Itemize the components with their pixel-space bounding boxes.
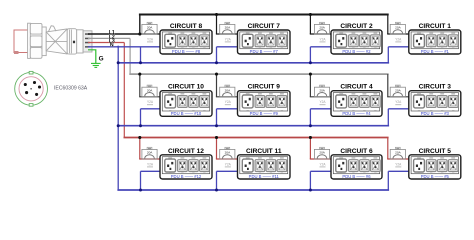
svg-text:PDU B —— #3: PDU B —— #3: [421, 111, 450, 116]
circuit box CIRCUIT 4: [331, 91, 382, 117]
junction: [309, 136, 312, 139]
circuit box CIRCUIT 8: [160, 30, 212, 54]
wire phase feed circuit 11: [216, 138, 218, 160]
svg-text:20A: 20A: [319, 88, 325, 92]
svg-text:CIRCUIT 7: CIRCUIT 7: [248, 23, 281, 30]
wire phase feed circuit 5: [387, 138, 389, 160]
wire neutral circuit 6: [310, 170, 331, 172]
wire phase feed circuit 4: [309, 74, 311, 97]
bus L3 row3: [124, 137, 389, 139]
svg-text:PDU B —— #9: PDU B —— #9: [250, 111, 279, 116]
svg-text:PDU B —— #12: PDU B —— #12: [171, 174, 202, 179]
wire phase feed circuit 7: [216, 15, 218, 35]
svg-text:Y2A: Y2A: [395, 37, 402, 41]
cable entry (red): [14, 30, 30, 54]
breaker CB11: [220, 147, 235, 167]
bus L2 row2: [129, 73, 388, 75]
svg-text:CIRCUIT 8: CIRCUIT 8: [170, 23, 203, 30]
svg-text:20A: 20A: [225, 26, 231, 30]
plug terminals: [85, 33, 90, 47]
svg-text:20A: 20A: [147, 88, 153, 92]
svg-text:CIRCUIT 4: CIRCUIT 4: [340, 84, 373, 91]
svg-text:CIRCUIT 1: CIRCUIT 1: [419, 23, 452, 30]
svg-text:IEC60309 63A: IEC60309 63A: [54, 86, 88, 92]
svg-text:CIRCUIT 5: CIRCUIT 5: [419, 148, 452, 155]
wire neutral circuit 7: [217, 46, 238, 48]
circuit box CIRCUIT 10: [160, 91, 212, 117]
circuit box CIRCUIT 7: [238, 30, 291, 54]
bus N row3: [117, 189, 389, 191]
bus L1 row1: [139, 14, 389, 16]
junction dots: [215, 13, 218, 16]
wire neutral circuit 5: [388, 170, 409, 172]
svg-text:Y2A: Y2A: [395, 162, 402, 166]
wire phase feed circuit 8: [140, 33, 160, 35]
wire phase feed circuit 12: [139, 138, 141, 160]
breaker CB8: [142, 22, 157, 42]
svg-text:Y2A: Y2A: [319, 162, 326, 166]
junction: [309, 73, 312, 76]
breaker CB5: [390, 147, 405, 167]
ground: [91, 63, 101, 67]
svg-text:N: N: [110, 42, 114, 48]
circuit box CIRCUIT 11: [238, 155, 291, 179]
wire phase feed circuit 3: [387, 74, 389, 97]
wire neutral circuit 9: [217, 108, 238, 110]
svg-text:CIRCUIT 9: CIRCUIT 9: [248, 84, 281, 91]
svg-text:20A: 20A: [395, 88, 401, 92]
circuit box CIRCUIT 3: [409, 91, 461, 117]
svg-text:PDU B —— #5: PDU B —— #5: [421, 174, 450, 179]
junction: [138, 136, 141, 139]
svg-text:20A: 20A: [225, 151, 231, 155]
junction: [309, 13, 312, 16]
svg-text:Y2A: Y2A: [395, 100, 402, 104]
breaker CB7: [220, 22, 235, 42]
svg-text:CIRCUIT 6: CIRCUIT 6: [340, 148, 373, 155]
circuit box CIRCUIT 5: [409, 155, 461, 179]
wire L3: [88, 42, 124, 44]
wire phase feed circuit 6: [309, 138, 311, 160]
connector face IEC60309 63A: [15, 71, 48, 106]
svg-text:PDU B —— #8: PDU B —— #8: [172, 49, 201, 54]
svg-text:20A: 20A: [147, 151, 153, 155]
junction: [138, 33, 141, 36]
junction: [215, 73, 218, 76]
wire L1: [88, 33, 140, 35]
wire L2 drop: [129, 38, 131, 74]
wire L2: [88, 37, 130, 39]
svg-text:20A: 20A: [225, 88, 231, 92]
svg-text:20A: 20A: [319, 26, 325, 30]
wire G green: [88, 50, 96, 63]
wire neutral circuit 4: [310, 108, 331, 110]
wire neutral circuit 8: [141, 46, 161, 48]
circuit box CIRCUIT 12: [160, 155, 212, 179]
svg-text:20A: 20A: [319, 151, 325, 155]
svg-text:Y2A: Y2A: [147, 37, 154, 41]
svg-text:Y2A: Y2A: [225, 37, 232, 41]
wire N: [88, 46, 141, 48]
breaker CB2: [314, 22, 329, 42]
wire neutral circuit 3: [388, 108, 409, 110]
svg-text:Y2A: Y2A: [225, 162, 232, 166]
svg-text:CIRCUIT 3: CIRCUIT 3: [419, 84, 452, 91]
svg-text:PDU B —— #10: PDU B —— #10: [171, 111, 202, 116]
wire phase feed circuit 10: [139, 74, 141, 97]
svg-text:PDU B —— #7: PDU B —— #7: [250, 49, 279, 54]
wire L1 riser: [139, 15, 141, 35]
breaker CB3: [390, 85, 405, 105]
wire neutral circuit 1: [388, 46, 409, 48]
breaker CB9: [220, 85, 235, 105]
wire phase feed circuit 1: [387, 15, 389, 35]
svg-text:G: G: [99, 56, 104, 63]
circuit box CIRCUIT 2: [331, 30, 382, 54]
svg-text:CIRCUIT 12: CIRCUIT 12: [168, 148, 204, 155]
wire L3 drop: [123, 43, 125, 138]
svg-text:Y2A: Y2A: [147, 100, 154, 104]
breaker CB1: [390, 22, 405, 42]
wire N main drop: [117, 47, 119, 190]
wire neutral circuit 11: [217, 170, 238, 172]
plug latch pin: [73, 41, 75, 44]
bus N row2: [118, 125, 389, 127]
breaker CB10: [142, 85, 157, 105]
svg-text:Y2A: Y2A: [319, 37, 326, 41]
wire neutral circuit 10: [141, 108, 161, 110]
wire phase feed circuit 9: [216, 74, 218, 97]
svg-text:Y2A: Y2A: [225, 100, 232, 104]
breaker CB12: [142, 147, 157, 167]
breaker CB4: [314, 85, 329, 105]
svg-text:Y2A: Y2A: [147, 162, 154, 166]
junction: [138, 73, 141, 76]
svg-text:CIRCUIT 11: CIRCUIT 11: [246, 148, 282, 155]
circuit box CIRCUIT 1: [409, 30, 461, 54]
svg-text:PDU B —— #2: PDU B —— #2: [342, 49, 371, 54]
svg-text:20A: 20A: [395, 151, 401, 155]
svg-text:CIRCUIT 2: CIRCUIT 2: [340, 23, 373, 30]
plug P1 IEC60309 body: [28, 23, 92, 58]
bus N row1: [118, 62, 389, 64]
wire neutral circuit 2: [310, 46, 331, 48]
svg-text:PDU B —— #11: PDU B —— #11: [249, 174, 280, 179]
breaker CB6: [314, 147, 329, 167]
svg-text:PDU B —— #1: PDU B —— #1: [421, 49, 450, 54]
circuit box CIRCUIT 6: [331, 155, 382, 179]
svg-text:Y2A: Y2A: [319, 100, 326, 104]
wire phase feed circuit 2: [309, 15, 311, 35]
wire neutral circuit 12: [141, 170, 161, 172]
circuit box CIRCUIT 9: [238, 91, 291, 117]
svg-text:20A: 20A: [395, 26, 401, 30]
junction: [215, 13, 218, 16]
junction: [215, 136, 218, 139]
svg-text:CIRCUIT 10: CIRCUIT 10: [168, 84, 204, 91]
svg-text:PDU B —— #4: PDU B —— #4: [342, 111, 371, 116]
svg-text:20A: 20A: [147, 26, 153, 30]
svg-text:PDU B —— #6: PDU B —— #6: [342, 174, 371, 179]
